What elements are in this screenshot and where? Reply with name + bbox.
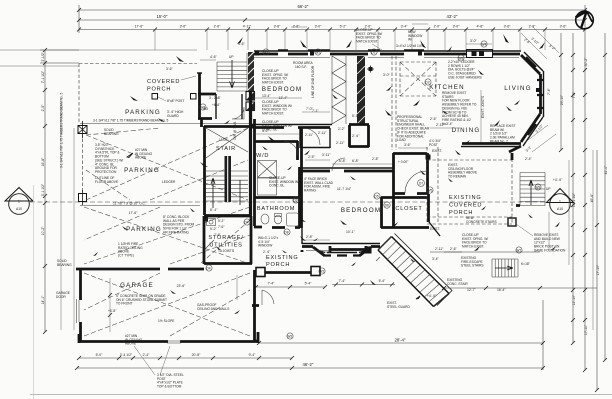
svg-text:3'-4": 3'-4" <box>432 257 440 261</box>
north exterior wall <box>254 53 520 56</box>
west wall of house (stair block) <box>198 73 201 93</box>
svg-text:17'-11": 17'-11" <box>584 324 588 335</box>
svg-text:2'-2": 2'-2" <box>338 127 346 131</box>
post marker square bottom <box>79 194 87 202</box>
storage room walls <box>204 216 252 264</box>
svg-text:3'-6": 3'-6" <box>180 25 188 29</box>
svg-text:2'-4": 2'-4" <box>143 353 151 357</box>
svg-text:2'-6": 2'-6" <box>293 25 301 29</box>
cross symbol <box>367 66 374 73</box>
porch door arc <box>262 290 274 305</box>
svg-text:PARKING: PARKING <box>124 167 160 174</box>
parking west dashed beam edge <box>82 133 84 193</box>
svg-text:7'-4": 7'-4" <box>547 87 551 95</box>
svg-text:3'-6": 3'-6" <box>166 67 174 71</box>
bathroom fixtures <box>261 214 269 224</box>
hall east wall dashed (kitchen west) <box>392 56 396 150</box>
WD room walls <box>254 119 298 199</box>
svg-text:3 1/2" DIA. STEELPOST4"x4"x1/2: 3 1/2" DIA. STEELPOST4"x4"x1/2" PLATETOP… <box>157 373 184 389</box>
north arrow <box>576 11 594 29</box>
svg-text:12'-10": 12'-10" <box>572 294 576 305</box>
upper stair treads <box>217 62 247 91</box>
svg-text:30'-2": 30'-2" <box>584 57 588 66</box>
svg-text:16'-4": 16'-4" <box>497 288 506 292</box>
section marker right (1/A10) <box>547 189 574 215</box>
existing covered porch outline dashed <box>427 147 512 224</box>
pilaster mid <box>252 306 259 342</box>
svg-text:45'-6": 45'-6" <box>590 193 594 202</box>
bedroom top south wall <box>254 126 330 129</box>
svg-text:160 S.F.: 160 S.F. <box>295 65 307 69</box>
svg-text:66'-2": 66'-2" <box>298 4 309 9</box>
dim lines right-bottom area <box>318 252 380 261</box>
svg-text:W4: W4 <box>481 42 486 46</box>
svg-text:3'-0": 3'-0" <box>453 25 461 29</box>
post marker square top <box>78 126 87 134</box>
left beam label line <box>60 100 62 330</box>
svg-text:+4'- 6": +4'- 6" <box>427 294 437 298</box>
svg-text:7'-1 1/2": 7'-1 1/2" <box>41 70 45 83</box>
bedroom2 south wall + bay <box>302 247 380 257</box>
svg-text:3'-4": 3'-4" <box>446 122 454 126</box>
svg-text:7'-0": 7'-0" <box>572 91 576 99</box>
svg-text:D4: D4 <box>244 220 248 224</box>
wall from porch to stair <box>302 246 366 253</box>
svg-text:3'-8": 3'-8" <box>274 25 282 29</box>
svg-text:STORAGE/UTILITIES: STORAGE/UTILITIES <box>208 235 243 249</box>
window marks north wall <box>467 50 493 58</box>
svg-text:LIVING: LIVING <box>504 85 532 92</box>
svg-text:3'-11": 3'-11" <box>322 153 331 157</box>
svg-text:D5: D5 <box>374 194 378 198</box>
svg-text:3-1 3/4"x11 7/8" 1.75 TIMBERST: 3-1 3/4"x11 7/8" 1.75 TIMBERSTRAND BEAM … <box>60 92 64 168</box>
svg-text:4'-6": 4'-6" <box>210 55 218 59</box>
svg-text:15'-0": 15'-0" <box>157 14 168 19</box>
svg-text:5'-1": 5'-1" <box>352 114 360 118</box>
svg-text:2'-11": 2'-11" <box>435 247 444 251</box>
svg-text:D3: D3 <box>293 198 297 202</box>
svg-text:5'-2": 5'-2" <box>218 219 225 223</box>
svg-text:43'-2": 43'-2" <box>447 14 458 19</box>
svg-text:4'-11": 4'-11" <box>243 25 252 29</box>
diagonal stair outline <box>378 234 452 307</box>
svg-text:W1: W1 <box>263 50 268 54</box>
svg-text:D7: D7 <box>419 182 423 186</box>
svg-text:BEDROOM: BEDROOM <box>262 86 302 93</box>
svg-text:W/D: W/D <box>256 153 269 159</box>
svg-text:LINE OF 2ND FLOOR: LINE OF 2ND FLOOR <box>311 65 315 98</box>
stair center rail (dark) <box>225 156 232 202</box>
svg-text:D1: D1 <box>371 50 375 54</box>
beam line over parking <box>80 123 252 125</box>
zigzag existing wall <box>332 56 346 124</box>
hatched chimney wall <box>357 56 365 125</box>
svg-text:10'-2": 10'-2" <box>41 226 45 235</box>
svg-text:EXIST.: EXIST. <box>430 227 440 231</box>
svg-text:3'-4 1/2": 3'-4 1/2" <box>120 353 133 357</box>
svg-text:8"x8" POST: 8"x8" POST <box>167 99 184 103</box>
extra leader arrows <box>93 86 556 314</box>
svg-text:3'-1/2": 3'-1/2" <box>41 51 45 61</box>
X bracing garage <box>84 273 250 336</box>
entry hall walls <box>393 153 428 194</box>
main stair treads <box>206 176 248 201</box>
svg-text:W9: W9 <box>535 185 540 189</box>
svg-text:UP: UP <box>546 187 551 191</box>
svg-text:K=18": K=18" <box>521 262 531 266</box>
svg-text:25'-10": 25'-10" <box>560 94 564 105</box>
garage west wall <box>79 269 82 341</box>
svg-text:3=4"x2 1/2"x8 1/4": 3=4"x2 1/2"x8 1/4" <box>396 44 424 48</box>
extension lines dropping from top dims <box>155 30 545 51</box>
svg-text:2'- 6": 2'- 6" <box>352 134 360 138</box>
small closet top of bedroom2 <box>300 128 330 148</box>
black window/post markers <box>255 52 259 56</box>
svg-text:W2: W2 <box>315 50 320 54</box>
svg-text:+4'- 6": +4'- 6" <box>553 178 563 182</box>
svg-text:2'-6": 2'-6" <box>450 247 458 251</box>
svg-text:W8: W8 <box>458 56 463 60</box>
svg-text:41'-0": 41'-0" <box>604 165 608 174</box>
svg-text:A10: A10 <box>557 207 563 211</box>
garage south wall <box>79 332 259 343</box>
svg-text:2'-11": 2'-11" <box>305 133 314 137</box>
svg-text:3'-6": 3'-6" <box>404 143 412 147</box>
garage interior dim leaders <box>110 275 237 332</box>
svg-text:13'-4": 13'-4" <box>262 94 271 98</box>
svg-text:6'-8": 6'-8" <box>352 159 360 163</box>
svg-text:+ 0.00": + 0.00" <box>398 160 409 164</box>
svg-text:7'-6": 7'-6" <box>214 233 222 237</box>
bottom dimension rows <box>77 300 543 370</box>
svg-text:10'-1": 10'-1" <box>346 230 355 234</box>
garage east wall / porch west wall <box>253 270 256 342</box>
svg-text:7'-4": 7'-4" <box>339 279 347 283</box>
diagonal stair treads <box>378 237 449 307</box>
svg-text:UP: UP <box>229 55 234 59</box>
bay window walls <box>462 55 541 144</box>
svg-text:14'-1": 14'-1" <box>41 295 45 304</box>
garage south opening window marks <box>167 341 181 343</box>
svg-text:2'-6": 2'-6" <box>214 25 222 29</box>
existing porch posts and walls <box>256 268 265 277</box>
svg-text:CLOSET: CLOSET <box>395 206 422 212</box>
stair landing diagonals <box>206 128 248 171</box>
left vertical dimension line <box>40 50 79 332</box>
washer dryer boxes <box>258 161 277 178</box>
svg-text:2'-8": 2'-8" <box>372 157 380 161</box>
svg-text:5'-4": 5'-4" <box>379 279 387 283</box>
bedroom2 west wall <box>300 128 303 228</box>
svg-text:BEDROOM: BEDROOM <box>341 207 381 214</box>
svg-text:6'-8": 6'-8" <box>339 159 347 163</box>
svg-text:2'-5": 2'-5" <box>308 155 316 159</box>
diagonal from closet to stair <box>429 222 440 236</box>
svg-text:2'-11": 2'-11" <box>436 123 445 127</box>
svg-text:2'- 6": 2'- 6" <box>263 250 271 254</box>
svg-text:W2: W2 <box>319 269 324 273</box>
wall section squares <box>246 92 255 101</box>
svg-text:KITCHEN: KITCHEN <box>429 84 465 91</box>
closet mid (2-6) <box>349 125 369 148</box>
north wall inner face lines <box>254 57 519 59</box>
svg-text:1: 1 <box>18 200 20 204</box>
svg-text:1: 1 <box>559 200 561 204</box>
svg-text:28'-4": 28'-4" <box>395 338 406 343</box>
svg-text:+6'-8": +6'-8" <box>108 309 117 313</box>
svg-text:3'-4": 3'-4" <box>401 25 409 29</box>
svg-text:BATHROOM: BATHROOM <box>257 206 295 212</box>
bathroom walls <box>254 167 300 228</box>
svg-text:2'-4": 2'-4" <box>525 157 533 161</box>
svg-text:4'-2": 4'-2" <box>262 129 270 133</box>
svg-text:2'-11": 2'-11" <box>318 131 327 135</box>
kitchen dashed counters / exist stair to remove <box>400 62 436 96</box>
floor-above X bracing upper parking <box>86 128 248 200</box>
storage door opening <box>204 240 214 250</box>
bedroom2 north wall <box>302 170 393 173</box>
svg-text:2'-0": 2'-0" <box>434 25 442 29</box>
svg-text:7'-4": 7'-4" <box>268 282 276 286</box>
svg-text:A10: A10 <box>16 207 22 211</box>
svg-text:7'-1": 7'-1" <box>312 109 320 113</box>
right up stair <box>520 173 545 206</box>
section cut dashed line <box>30 201 546 203</box>
svg-text:2'-5": 2'-5" <box>41 104 45 112</box>
svg-text:EXIST.: EXIST. <box>432 149 442 153</box>
svg-text:17'-6": 17'-6" <box>135 25 144 29</box>
svg-text:LEDGER: LEDGER <box>162 180 176 184</box>
svg-text:8'- 4": 8'- 4" <box>210 208 218 212</box>
svg-text:17'-10": 17'-10" <box>596 264 600 275</box>
right vertical dimension lines <box>561 33 605 390</box>
section marker left (1/A10) <box>5 188 33 215</box>
svg-text:2'-8": 2'-8" <box>306 235 314 239</box>
svg-text:2'-8": 2'-8" <box>529 25 537 29</box>
svg-text:1% SLOPE: 1% SLOPE <box>158 319 175 323</box>
porch SE corner post <box>508 218 516 226</box>
svg-text:23'-6": 23'-6" <box>177 284 186 288</box>
hatched wall right of upper stair <box>248 52 254 91</box>
svg-text:W7: W7 <box>516 248 521 252</box>
fire escape stair <box>492 259 518 277</box>
svg-text:3'-0": 3'-0" <box>315 25 323 29</box>
svg-text:9'-4": 9'-4" <box>249 353 257 357</box>
svg-text:2'-6": 2'-6" <box>430 117 438 121</box>
svg-text:11'-7 1/4": 11'-7 1/4" <box>337 187 352 191</box>
svg-text:D4: D4 <box>206 266 210 270</box>
svg-text:D2: D2 <box>425 80 429 84</box>
stair arrows <box>211 178 240 208</box>
svg-text:GARAGE: GARAGE <box>120 282 154 289</box>
svg-text:2'-11": 2'-11" <box>336 141 345 145</box>
svg-text:3'-0": 3'-0" <box>383 73 391 77</box>
storage fixture <box>207 219 216 226</box>
svg-text:14R @ 7 3/4: 14R @ 7 3/4 <box>233 122 237 140</box>
svg-text:5'-2": 5'-2" <box>340 25 348 29</box>
W/D door arc <box>284 142 298 156</box>
svg-text:46'-2": 46'-2" <box>303 362 314 367</box>
covered porch outline <box>79 64 197 124</box>
svg-text:3'-1 1/2": 3'-1 1/2" <box>41 183 45 196</box>
dimension row top small dims <box>79 29 585 31</box>
svg-text:17'-6": 17'-6" <box>129 211 138 215</box>
small circled labels <box>263 49 269 55</box>
svg-text:20'-8": 20'-8" <box>192 353 201 357</box>
svg-text:3-1 3/4"x11 7/8" 1.75 TIMBERST: 3-1 3/4"x11 7/8" 1.75 TIMBERSTRAND BEAM … <box>93 119 169 123</box>
south wall west segment (bathroom to bedroom) <box>301 227 304 230</box>
svg-text:W5: W5 <box>427 188 432 192</box>
paper/table edge bottom <box>30 394 612 396</box>
svg-text:5'-2": 5'-2" <box>210 227 218 231</box>
garage north wall <box>76 268 204 271</box>
svg-text:4'-6": 4'-6" <box>477 25 485 29</box>
svg-text:3'-0": 3'-0" <box>470 39 478 43</box>
svg-text:TA JOISTS: TA JOISTS <box>218 249 235 253</box>
closet walls <box>381 194 429 228</box>
svg-text:W2: W2 <box>287 334 292 338</box>
right dim extra ticks <box>571 68 587 322</box>
svg-text:D6: D6 <box>385 203 389 207</box>
svg-text:7'-6": 7'-6" <box>218 225 225 229</box>
svg-text:16'-8": 16'-8" <box>41 157 45 166</box>
TJI note over lower parking <box>80 205 200 207</box>
svg-text:7'-0": 7'-0" <box>306 107 314 111</box>
svg-text:11 7/8" TJI @ 16" O.C.: 11 7/8" TJI @ 16" O.C. <box>113 202 146 206</box>
svg-text:5'-4": 5'-4" <box>305 282 313 286</box>
dimension row top 66ft <box>79 5 585 120</box>
stair down arrow <box>230 60 235 88</box>
svg-text:EXIST. JOISTS: EXIST. JOISTS <box>481 95 485 118</box>
svg-text:5'-0": 5'-0" <box>96 353 104 357</box>
svg-text:PARKING: PARKING <box>125 109 161 116</box>
svg-text:D8: D8 <box>284 230 288 234</box>
main stair room walls <box>204 126 252 216</box>
vestibule room under upper stair <box>198 93 216 119</box>
misc short dim lines with ticks <box>200 44 492 240</box>
svg-text:3'-6": 3'-6" <box>504 25 512 29</box>
bay window sills <box>526 57 543 135</box>
garage door line <box>77 299 80 323</box>
svg-text:W3: W3 <box>200 105 205 109</box>
svg-text:12'-7": 12'-7" <box>467 288 476 292</box>
svg-text:3'-6": 3'-6" <box>560 25 568 29</box>
bedroom2 door arc into closet <box>332 158 345 171</box>
X bracing lower parking <box>84 207 250 264</box>
dimension row top second <box>79 19 585 21</box>
svg-text:3 - 2'x8": 3 - 2'x8" <box>209 96 222 100</box>
svg-text:+6'-6": +6'-6" <box>212 103 221 107</box>
